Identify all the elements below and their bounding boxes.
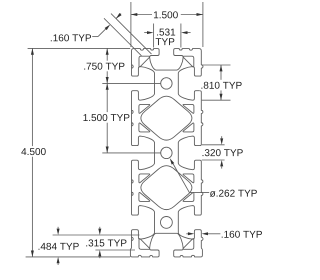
- arrowhead .531 left: [147, 31, 153, 34]
- extension line (.315 lower): [95, 249, 135, 251]
- extension line 45deg inner (.160 wall): [104, 18, 142, 56]
- inner corner cavity bottom-right: [183, 239, 194, 250]
- extension line bottom face: [26, 256, 131, 258]
- leader horizontal (.160 TYP lip): [208, 233, 220, 235]
- label ø.262 TYP: [210, 191, 216, 197]
- extension line slot centerline middle: [102, 152, 161, 154]
- label .315 TYP: [85, 245, 88, 246]
- dimension line .750 TYP: [106, 48, 108, 83]
- center hole middle: [161, 147, 172, 158]
- arrowhead .315 bottom: [98, 250, 101, 256]
- leader segment (.160 TYP top-left): [98, 29, 106, 37]
- arrowhead 1.500 left: [131, 13, 137, 16]
- center hole top: [161, 78, 172, 89]
- dimension line 1.500 TYP: [106, 83, 108, 152]
- arrowhead .484 bottom: [57, 257, 60, 263]
- arrow tail (.484 top): [57, 227, 59, 229]
- leader tail outer (.160 TYP top-left): [116, 14, 121, 19]
- dimension line 1.500 right segment: [181, 14, 203, 16]
- diamond cavity: [141, 166, 192, 210]
- arrow tail (.315 bottom): [99, 256, 101, 258]
- inner web cavity left: [139, 123, 150, 132]
- extension line (.320 upper): [202, 144, 225, 146]
- inner web cavity right: [183, 123, 194, 132]
- leader tail left (.160 TYP lip): [186, 233, 188, 235]
- arrowhead 1.500 right: [197, 13, 203, 16]
- arrowhead 1.500TYP top: [106, 83, 109, 89]
- arrowhead .160 wall outer: [116, 13, 122, 19]
- dimension line .810 TYP: [220, 65, 222, 100]
- leader tail left (.531): [144, 32, 147, 34]
- label .484 TYP: [38, 249, 41, 250]
- inner corner cavity top-left: [139, 56, 150, 67]
- diamond cavity: [141, 96, 192, 140]
- inner web cavity left: [139, 104, 150, 113]
- arrowhead .531 right: [181, 31, 187, 34]
- inner corner cavity bottom-left: [139, 239, 150, 250]
- arrowhead .484 top: [57, 229, 60, 235]
- arrowhead 4.500 top: [31, 48, 34, 54]
- leader diagonal (dia .262): [173, 164, 189, 193]
- label .160 TYP: [50, 40, 53, 41]
- label 1.500 TYP: [83, 114, 87, 121]
- arrowhead 4.500 bottom: [31, 251, 34, 257]
- arrow tail (.320 top): [221, 136, 223, 138]
- arrowhead .320 bottom: [220, 160, 223, 166]
- extension line (.810 upper): [202, 64, 231, 66]
- label .750 TYP: [83, 69, 86, 70]
- inner web cavity right: [183, 174, 194, 183]
- extension line (.484/.315 upper): [53, 234, 140, 236]
- arrowhead .810 bottom: [220, 94, 223, 100]
- arrowhead dia .262: [170, 158, 174, 164]
- arrowhead .750 top: [106, 48, 109, 54]
- extension line left (1.500): [130, 2, 132, 47]
- extrusion outer outline: [130, 49, 203, 257]
- arrowhead .160 lip left: [188, 232, 194, 235]
- arrowhead .810 top: [220, 65, 223, 71]
- arrowhead 1.500TYP bottom: [106, 147, 109, 153]
- inner corner cavity top-right: [183, 56, 194, 67]
- inner web cavity left: [139, 192, 150, 201]
- label 4.500: [21, 148, 26, 155]
- label .320 TYP: [202, 155, 205, 156]
- arrow tail (.484 bottom): [57, 263, 59, 265]
- inner web cavity left: [139, 174, 150, 183]
- extension line right (1.500): [202, 2, 204, 47]
- arrowhead .160 wall inner: [105, 25, 111, 31]
- leader tail right (.531): [187, 32, 190, 34]
- label .531: [156, 34, 159, 35]
- inner web cavity right: [183, 192, 194, 201]
- extension line top face: [28, 47, 131, 49]
- extension line (.810 lower): [202, 99, 231, 101]
- arrowhead .315 top: [98, 229, 101, 235]
- arrow tail (.320 bottom): [221, 166, 223, 168]
- extension line right (.531): [180, 24, 182, 48]
- dimension line 1.500 left segment: [131, 14, 153, 16]
- label .810 TYP: [200, 88, 203, 89]
- extension line left (.531): [153, 24, 155, 48]
- inner web cavity right: [183, 104, 194, 113]
- label 1.500: [154, 11, 158, 18]
- dimension line 4.500: [31, 48, 33, 257]
- arrowhead .750 bottom: [106, 77, 109, 83]
- center hole bottom: [161, 217, 173, 229]
- extension line (.320 lower): [202, 159, 225, 161]
- extension line 45deg outer (.160 wall): [111, 14, 152, 55]
- leader dash (.160 TYP top-left): [92, 36, 98, 38]
- extension line slot centerline upper: [102, 82, 161, 84]
- label TYP: [156, 38, 162, 45]
- arrow tail (.315 top): [99, 227, 101, 229]
- arrowhead .320 top: [220, 138, 223, 144]
- leader horizontal (dia .262): [189, 192, 209, 194]
- label .160 TYP: [221, 237, 224, 238]
- arrowhead .160 lip right: [202, 232, 208, 235]
